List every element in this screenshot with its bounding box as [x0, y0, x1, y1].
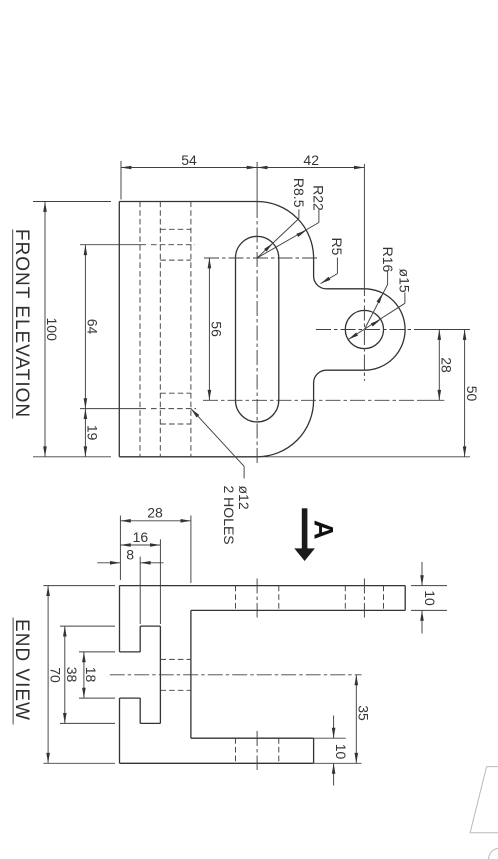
dimension 100 line: [44, 202, 46, 457]
front elevation: hidden hole 2 centreline: [80, 408, 146, 410]
end view: hidden hole phi12 upper edge: [160, 658, 191, 660]
front elevation: plate bottom edge: [119, 456, 257, 458]
svg-text:50: 50: [464, 386, 480, 402]
leader phi15: [404, 293, 406, 304]
dimension 35 bottom extension: [314, 762, 362, 764]
front elevation: hidden line 16mm depth: [159, 202, 161, 457]
dimension 50 line: [464, 330, 466, 457]
end view: bottom arm top edge: [191, 737, 314, 739]
front elevation: hidden hole 2 upper edge: [160, 392, 191, 394]
leader R8.5: [298, 209, 300, 218]
front elevation: R16 tab arc: [364, 289, 405, 370]
dimension 70 top extension: [43, 585, 115, 587]
svg-text:R22: R22: [311, 185, 327, 211]
end view: T-slot step top-left vertical: [139, 626, 141, 652]
end view: T-slot step bottom-left vertical: [139, 698, 141, 723]
end view: left edge lower: [119, 698, 121, 763]
svg-text:35: 35: [356, 705, 372, 721]
dimension 38 arrows: [63, 626, 67, 636]
front elevation: tab bottom edge: [326, 369, 364, 371]
end view: slot centreline (top arm): [256, 579, 258, 618]
end view: hole hidden edge right (top arm): [383, 586, 385, 611]
dimension 42 arrows: [257, 166, 267, 170]
front elevation: vertical centreline through slot: [256, 162, 258, 203]
dimension 10 line (bottom arm): [333, 716, 335, 739]
svg-text:70: 70: [47, 667, 63, 683]
sheet corner arc (faint): [489, 848, 498, 859]
end view: T-slot mouth top: [120, 651, 141, 653]
front elevation: hidden hole 1 centreline: [80, 244, 146, 246]
end view: bottom edge: [120, 762, 314, 764]
svg-text:END VIEW: END VIEW: [11, 619, 32, 721]
svg-text:18: 18: [83, 667, 99, 683]
front elevation: plate left edge: [118, 202, 120, 457]
dimension 8 arrows (end view): [110, 561, 120, 565]
dimension 70 line: [47, 586, 49, 764]
dimension 10 extension (bottom arm): [314, 737, 346, 739]
front elevation: plate top edge: [119, 201, 257, 203]
end view: wall inner face: [190, 610, 192, 738]
svg-text:R8.5: R8.5: [291, 178, 307, 208]
dimension 38 top extension: [60, 625, 115, 627]
end view: bottom arm right end: [313, 738, 315, 763]
dimension 16 right extension (end view): [159, 539, 161, 624]
svg-text:10: 10: [422, 590, 438, 606]
dimension 18 arrows: [82, 652, 86, 662]
svg-text:10: 10: [333, 744, 349, 760]
dimension 10 extensions (top arm): [411, 585, 447, 587]
front elevation: R5 fillet bottom: [314, 370, 327, 383]
dimension 18 bottom extension: [79, 697, 115, 699]
leader R5: [336, 258, 338, 274]
svg-text:54: 54: [181, 152, 197, 168]
dimension 64/19 line: [84, 245, 86, 457]
front elevation: slot bottom horizontal centreline: [203, 399, 420, 401]
front elevation: slot top horizontal centreline: [204, 257, 319, 259]
end view: top edge: [120, 585, 406, 587]
front elevation: hole horizontal centreline: [316, 329, 418, 331]
dimension 64 arrows: [84, 245, 88, 255]
front elevation: slot right edge: [278, 258, 280, 400]
svg-text:38: 38: [64, 667, 80, 683]
front elevation: hidden hole 2 lower edge: [160, 423, 191, 425]
dimension 54/42 line: [121, 167, 364, 169]
end view: T-slot bottom shelf: [140, 722, 160, 724]
svg-text:FRONT ELEVATION: FRONT ELEVATION: [11, 229, 32, 418]
front elevation: hidden hole 1 upper edge: [160, 228, 191, 230]
leader R16: [387, 272, 389, 285]
svg-text:64: 64: [85, 319, 101, 335]
end view: slot centreline (bottom arm): [256, 731, 258, 770]
end view: hidden hole phi12 lower edge: [160, 689, 191, 691]
dimension 18 line: [83, 652, 85, 698]
dimension 19 arrows: [84, 409, 88, 419]
dimension 54 arrows: [121, 166, 131, 170]
end view: horizontal centreline: [110, 674, 362, 676]
svg-text:28: 28: [147, 505, 163, 521]
front elevation: slot top arc R8.5: [235, 236, 278, 258]
svg-text:56: 56: [209, 321, 225, 337]
dimension 28 left extension (end view): [119, 516, 121, 581]
dimension 28 right extension (end view): [190, 516, 192, 584]
dimension 28 arrows (end view): [120, 519, 130, 523]
front elevation: hole phi15: [345, 310, 383, 348]
svg-text:8: 8: [126, 547, 134, 563]
front elevation: hidden hole 1 lower edge: [160, 259, 191, 261]
front elevation: right edge lower segment: [313, 383, 315, 400]
dimension 10 arrows (bottom arm): [332, 728, 336, 738]
dimension 70 bottom extension: [43, 762, 115, 764]
dimension 50 bottom extension: [258, 456, 471, 458]
dimension 100 arrows: [43, 202, 47, 212]
front elevation: slot bottom arc R8.5: [235, 400, 278, 422]
svg-text:A: A: [309, 520, 339, 540]
dimension 18 top extension: [79, 651, 115, 653]
dimension 10 line (top arm): [421, 562, 423, 586]
dimension 35 line: [355, 675, 357, 764]
svg-text:2 HOLES: 2 HOLES: [221, 486, 237, 545]
svg-text:42: 42: [303, 152, 319, 168]
end view: hole hidden edge left (top arm): [344, 586, 346, 611]
front elevation: hole vertical centreline: [363, 164, 365, 281]
dimension 10 arrows (top arm): [420, 575, 424, 585]
end view: T-slot back face: [159, 626, 161, 723]
front elevation: R22 bottom-right corner arc: [257, 400, 314, 457]
front elevation: tab top edge: [326, 288, 364, 290]
dimension 28 line (right): [438, 330, 440, 401]
front elevation: R22 top-right corner arc: [257, 202, 314, 259]
end view: top arm right end: [404, 586, 406, 611]
dimension 28 line (end view): [120, 520, 190, 522]
dimension 100 bottom extension: [33, 456, 111, 458]
svg-text:16: 16: [133, 529, 149, 545]
end view: top arm bottom edge: [191, 609, 405, 611]
dimension 8 lines (end view): [97, 562, 120, 564]
dimension 8 right extension (end view): [139, 557, 141, 624]
front elevation: hidden line 8mm depth: [139, 202, 141, 457]
end view: slot hidden edge right (bottom arm): [278, 738, 280, 763]
svg-text:100: 100: [44, 318, 60, 342]
dimension 50 arrows: [463, 330, 467, 340]
end view: left edge upper: [119, 586, 121, 652]
front elevation: R5 fillet top: [314, 276, 327, 289]
svg-text:ø15: ø15: [397, 269, 413, 293]
sheet corner lines (faint): [470, 767, 498, 833]
end view: slot hidden edge left (bottom arm): [235, 738, 237, 763]
front elevation: slot left edge: [235, 258, 237, 400]
svg-text:R5: R5: [329, 238, 345, 256]
svg-text:28: 28: [439, 357, 455, 373]
dimension 56 arrows: [208, 258, 212, 268]
svg-text:R16: R16: [380, 247, 396, 273]
dimension 54 left extension: [120, 161, 122, 200]
dimension 100 top extension: [33, 201, 111, 203]
end view: T-slot top shelf: [140, 625, 160, 627]
dimension 38 bottom extension: [60, 722, 115, 724]
dimension 35 arrows: [355, 675, 359, 685]
dimension 16 line (end view): [120, 544, 160, 546]
dimension 28 arrows (right): [438, 330, 442, 340]
dimension 70 arrows: [46, 586, 50, 596]
leader R22: [318, 210, 320, 223]
end view: slot hidden edge left (top arm): [235, 586, 237, 611]
dimension 16 arrows (end view): [120, 543, 130, 547]
end view: hole centreline (top arm): [363, 579, 365, 618]
leader phi12 2 holes: [191, 409, 244, 467]
dimension 56 line: [208, 258, 210, 400]
front elevation: right edge upper segment: [313, 258, 315, 276]
dimension 38 line: [64, 626, 66, 723]
end view: slot hidden edge right (top arm): [278, 586, 280, 611]
section arrow A: [302, 508, 308, 549]
svg-text:ø12: ø12: [236, 486, 252, 510]
end view: T-slot mouth bottom: [120, 697, 141, 699]
svg-text:19: 19: [85, 425, 101, 441]
front elevation: hidden line 28mm depth: [190, 202, 192, 457]
